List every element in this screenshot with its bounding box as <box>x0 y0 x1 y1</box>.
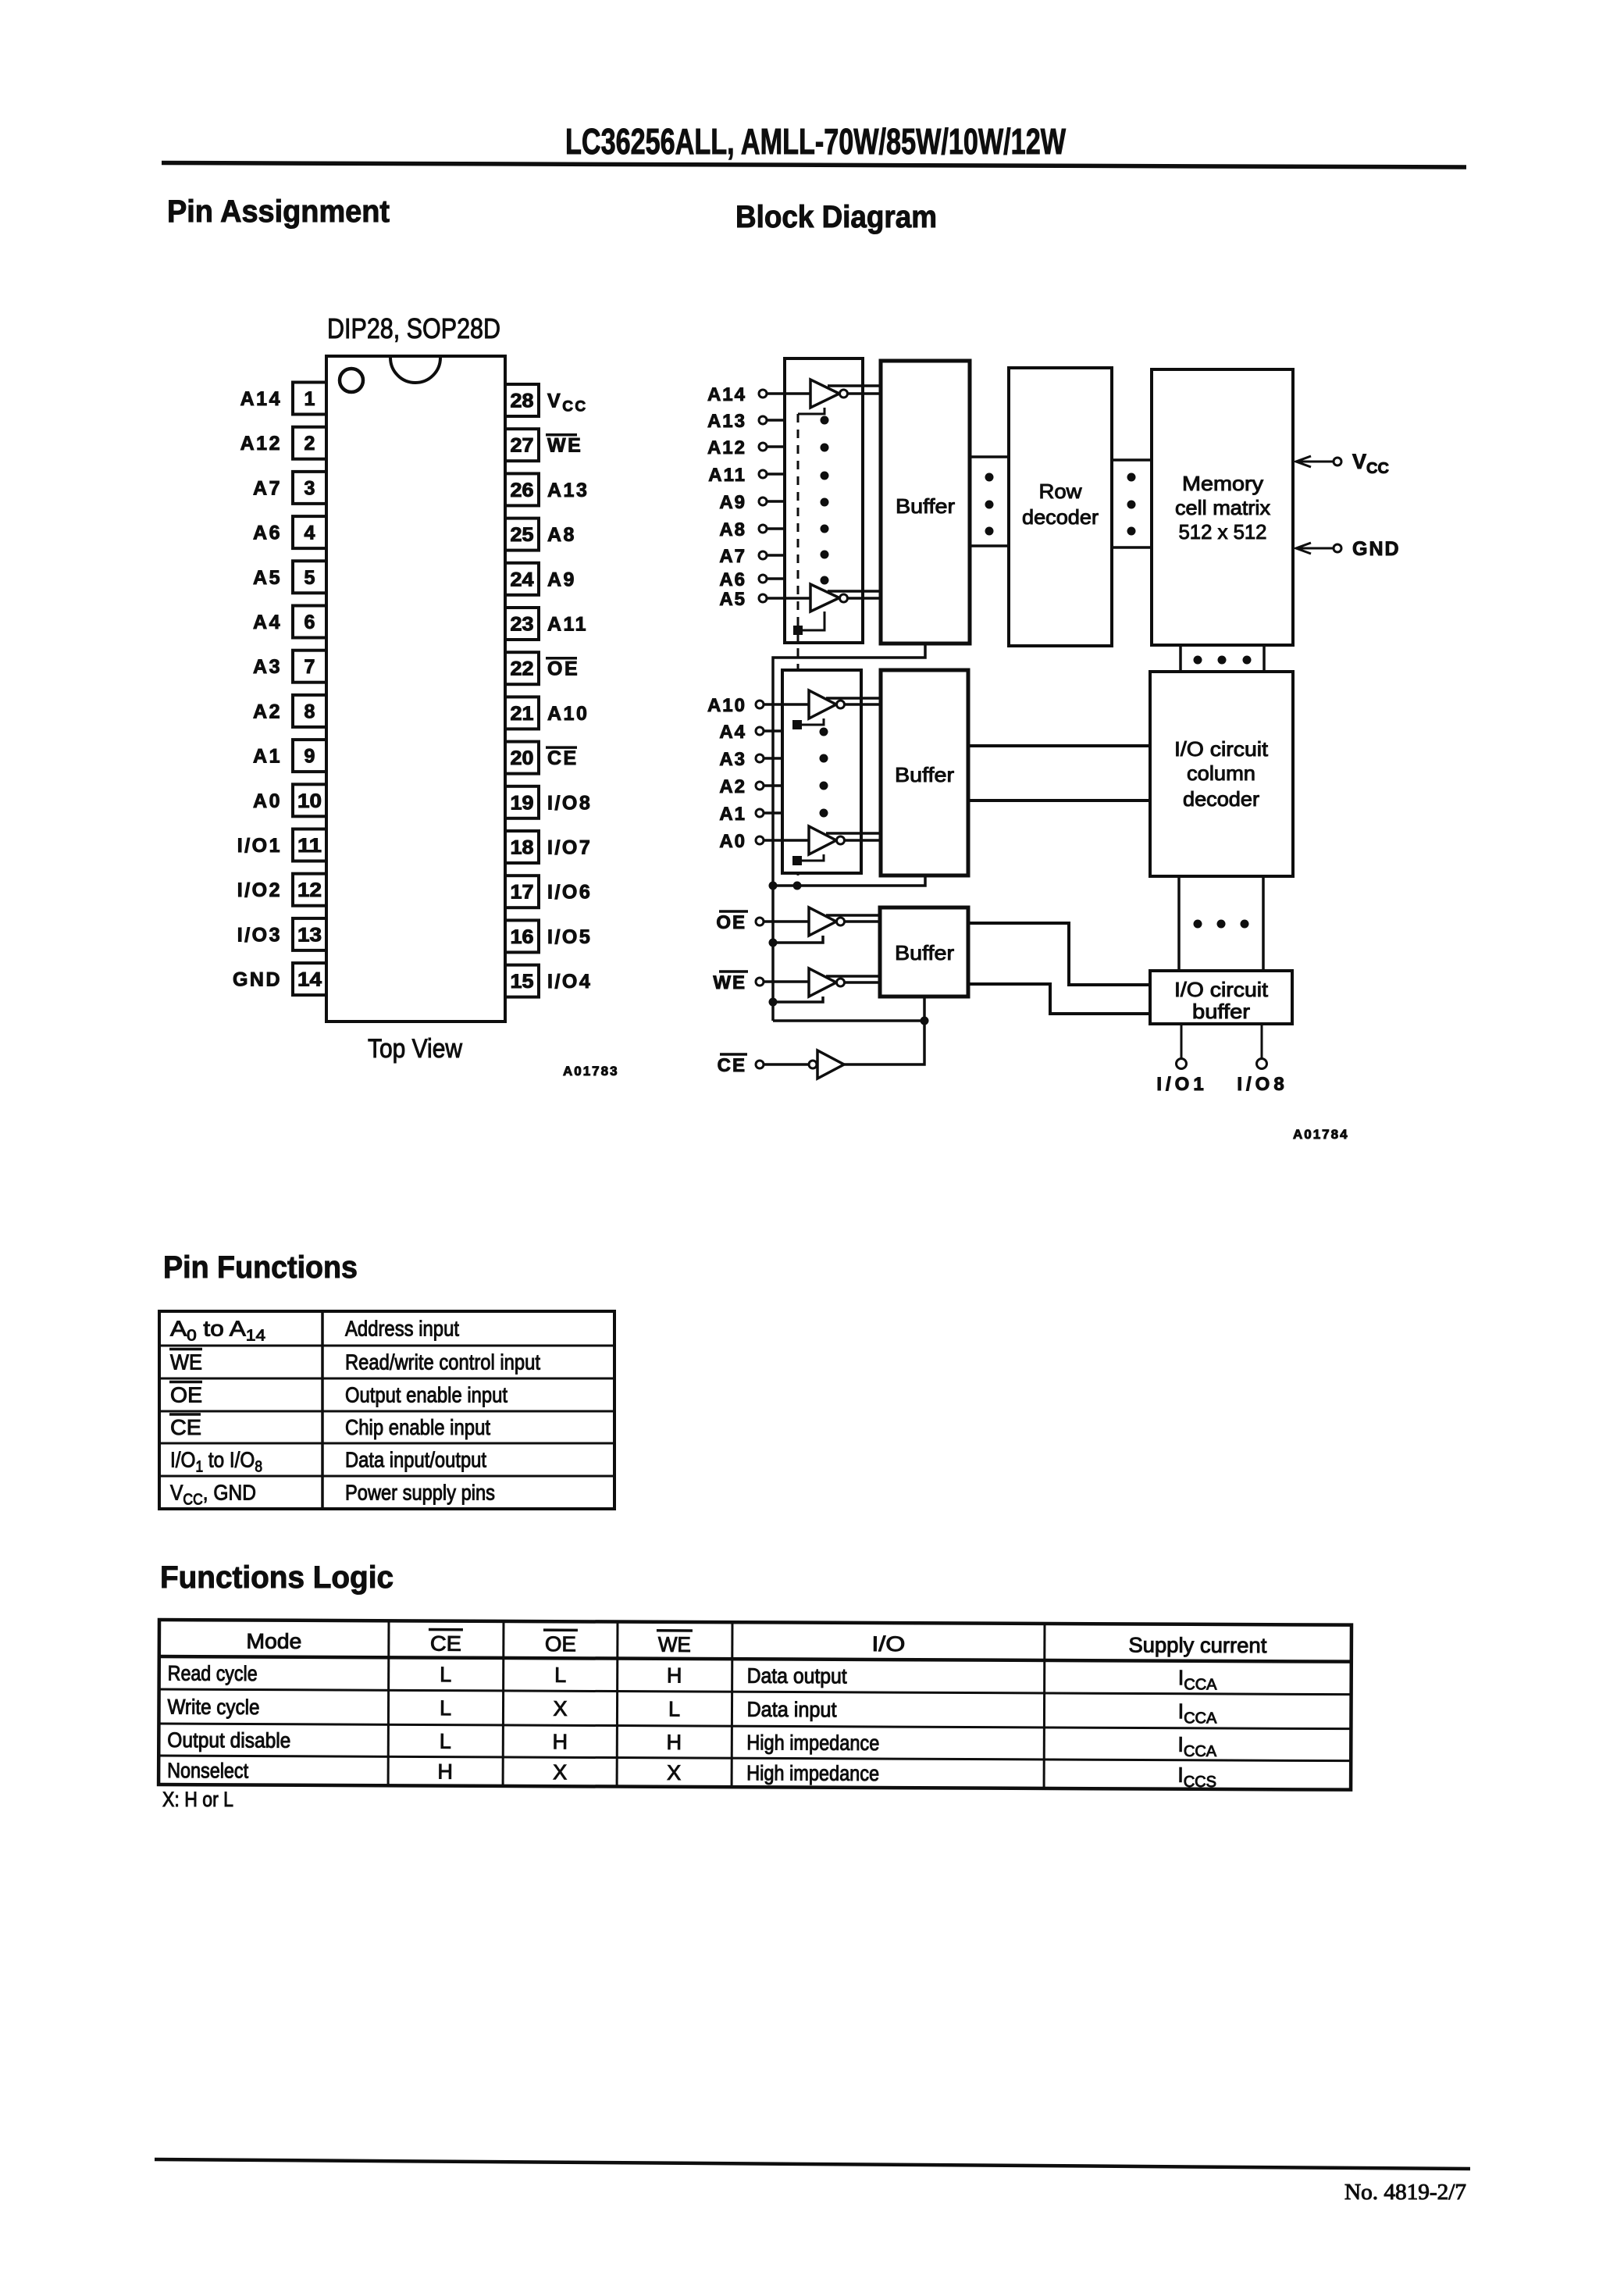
svg-text:11: 11 <box>297 835 322 857</box>
bus: row decoder to memory <box>1112 458 1152 462</box>
svg-text:Read cycle: Read cycle <box>168 1662 258 1686</box>
svg-text:H: H <box>667 1731 682 1754</box>
svg-text:A4: A4 <box>719 722 746 743</box>
wire: control buffer to I/O buffer (upper) <box>968 923 1150 985</box>
svg-text:Data input: Data input <box>746 1698 837 1722</box>
wire <box>764 729 782 733</box>
svg-text:3: 3 <box>304 477 315 499</box>
pin 28 box <box>505 384 539 416</box>
pin 14 box <box>293 963 326 995</box>
footer rule <box>155 2159 1470 2169</box>
pin 11 box <box>293 829 326 861</box>
svg-text:CE: CE <box>547 747 579 769</box>
svg-text:High impedance: High impedance <box>746 1731 879 1755</box>
pin 21 box <box>505 697 539 729</box>
pin 2 box <box>293 427 326 459</box>
pin 17 box <box>505 875 539 907</box>
pin 25 box <box>505 519 539 551</box>
buffer U3 (control) <box>880 907 968 997</box>
svg-text:I/O7: I/O7 <box>547 837 592 859</box>
wire: common control line <box>773 1019 924 1022</box>
svg-text:WE: WE <box>658 1633 691 1656</box>
svg-text:A5: A5 <box>253 567 282 589</box>
svg-text:L: L <box>440 1696 451 1720</box>
pin 20 box <box>505 742 539 774</box>
svg-text:Data input/output: Data input/output <box>345 1448 486 1472</box>
svg-text:I/O6: I/O6 <box>547 882 592 904</box>
svg-text:I/O8: I/O8 <box>1237 1074 1287 1095</box>
svg-text:X: H or L: X: H or L <box>162 1788 233 1811</box>
svg-text:22: 22 <box>511 658 534 680</box>
svg-text:Mode: Mode <box>246 1629 301 1653</box>
svg-text:A9: A9 <box>547 569 576 590</box>
svg-text:Functions Logic: Functions Logic <box>160 1560 394 1595</box>
svg-text:20: 20 <box>511 747 534 769</box>
svg-text:Buffer: Buffer <box>896 494 955 518</box>
svg-text:CE: CE <box>718 1055 746 1076</box>
svg-text:A01784: A01784 <box>1293 1127 1349 1142</box>
svg-text:A12: A12 <box>240 433 282 455</box>
svg-text:buffer: buffer <box>1192 1000 1250 1023</box>
wire <box>764 757 782 760</box>
inverter (WE) <box>809 968 836 997</box>
pin 1 box <box>293 383 326 415</box>
svg-text:X: X <box>553 1760 567 1784</box>
svg-text:A0 to A14: A0 to A14 <box>170 1317 265 1345</box>
pin 7 box <box>293 651 326 683</box>
junction <box>921 1017 929 1025</box>
svg-text:Power supply pins: Power supply pins <box>345 1481 495 1505</box>
svg-text:decoder: decoder <box>1022 505 1099 529</box>
svg-text:Row: Row <box>1039 480 1082 503</box>
buffer U2 (column address) <box>881 670 968 875</box>
junction <box>793 882 802 890</box>
wire pair to buffer (A5) <box>828 590 881 593</box>
pin 10 box <box>293 784 326 816</box>
svg-text:Block Diagram: Block Diagram <box>735 200 937 234</box>
svg-text:I/O2: I/O2 <box>237 879 282 901</box>
pin 3 box <box>293 472 326 504</box>
svg-text:I/O: I/O <box>871 1632 905 1656</box>
svg-text:26: 26 <box>511 480 534 501</box>
svg-text:Chip enable input: Chip enable input <box>345 1415 490 1439</box>
wires: buffer to column decoder <box>968 744 1150 747</box>
svg-text:A14: A14 <box>707 384 746 405</box>
wire <box>767 554 785 557</box>
svg-text:7: 7 <box>304 656 315 678</box>
pin 19 box <box>505 786 539 818</box>
I/O1 terminal <box>1181 1024 1183 1059</box>
svg-text:A10: A10 <box>547 703 589 725</box>
svg-text:ICCA: ICCA <box>1178 1699 1218 1727</box>
svg-text:A1: A1 <box>719 804 746 825</box>
svg-text:28: 28 <box>511 390 534 412</box>
svg-text:ICCS: ICCS <box>1177 1763 1216 1791</box>
wire <box>767 445 785 448</box>
inverter (OE) <box>809 907 836 936</box>
svg-text:A4: A4 <box>253 612 282 633</box>
memory cell matrix <box>1152 369 1293 645</box>
wire pair to buffer (A14) <box>828 384 881 387</box>
repetition dots <box>820 728 828 736</box>
pin 5 box <box>293 561 326 593</box>
svg-text:L: L <box>668 1697 680 1720</box>
svg-text:Output disable: Output disable <box>167 1728 290 1753</box>
junction <box>793 626 803 635</box>
wire <box>767 597 810 600</box>
svg-text:A13: A13 <box>547 480 589 501</box>
I/O circuit column decoder <box>1150 672 1293 876</box>
inverter (top of group 2) <box>809 690 836 718</box>
pin 26 box <box>505 473 539 505</box>
wire <box>764 839 809 842</box>
svg-text:Buffer: Buffer <box>895 941 954 965</box>
wire: OE branch to common line <box>773 936 823 943</box>
svg-text:Top View: Top View <box>368 1034 462 1064</box>
svg-text:Data output: Data output <box>747 1664 848 1688</box>
svg-text:GND: GND <box>1352 538 1401 560</box>
wire <box>764 784 782 787</box>
svg-text:L: L <box>440 1730 451 1753</box>
wire: WE branch to common line <box>773 997 823 1002</box>
svg-text:I/O1: I/O1 <box>237 835 282 857</box>
wire <box>764 980 809 983</box>
svg-text:A12: A12 <box>707 437 746 458</box>
I/O8 terminal <box>1261 1024 1263 1059</box>
svg-text:25: 25 <box>511 524 534 546</box>
svg-text:No. 4819-2/7: No. 4819-2/7 <box>1344 2180 1466 2205</box>
svg-text:8: 8 <box>304 701 315 722</box>
junction <box>769 939 778 947</box>
svg-text:23: 23 <box>511 614 534 636</box>
svg-text:I/O4: I/O4 <box>547 971 592 993</box>
svg-text:Buffer: Buffer <box>895 763 954 786</box>
svg-text:A01783: A01783 <box>563 1064 619 1079</box>
svg-text:A13: A13 <box>707 411 746 432</box>
svg-text:15: 15 <box>511 971 534 993</box>
svg-text:X: X <box>553 1697 567 1720</box>
pin 1 index dot <box>340 369 363 392</box>
svg-text:L: L <box>440 1663 451 1686</box>
svg-text:I/O8: I/O8 <box>547 792 592 814</box>
svg-text:VCC: VCC <box>1352 450 1389 477</box>
svg-text:GND: GND <box>233 969 282 991</box>
inverter (CE) with input bubble <box>809 1061 817 1068</box>
bus: memory to column decoder <box>1179 645 1182 670</box>
dashed repetition line <box>797 414 800 886</box>
svg-text:2: 2 <box>304 433 315 455</box>
svg-text:A5: A5 <box>719 589 746 610</box>
pin 24 box <box>505 563 539 595</box>
wire pair to buffer (OE) <box>826 914 880 917</box>
svg-text:A2: A2 <box>719 776 746 797</box>
wire <box>767 527 785 530</box>
svg-text:Output enable input: Output enable input <box>345 1383 507 1407</box>
svg-text:X: X <box>667 1761 681 1785</box>
svg-text:5: 5 <box>304 567 315 589</box>
svg-text:A1: A1 <box>253 746 282 768</box>
overline for pin 27 label <box>546 433 577 437</box>
wire: control buffer to I/O buffer (lower) <box>968 984 1150 1014</box>
svg-text:Address input: Address input <box>345 1317 459 1341</box>
svg-text:High impedance: High impedance <box>746 1761 879 1785</box>
row decoder <box>1009 368 1112 646</box>
svg-text:OE: OE <box>547 658 579 680</box>
junction <box>769 882 778 890</box>
pin 6 box <box>293 606 326 638</box>
svg-text:column: column <box>1187 761 1255 785</box>
svg-text:CE: CE <box>430 1632 461 1656</box>
inverter (bottom of group 2) <box>809 826 836 854</box>
svg-text:16: 16 <box>511 926 534 948</box>
svg-text:I/O3: I/O3 <box>237 924 282 946</box>
wire <box>764 1063 809 1066</box>
svg-text:A7: A7 <box>253 477 282 499</box>
wire: buffer1 bottom feedback <box>773 644 925 1021</box>
svg-text:VCC: VCC <box>547 390 588 415</box>
svg-text:I/O circuit: I/O circuit <box>1174 737 1269 761</box>
overline for pin 20 label <box>546 746 577 749</box>
I/O circuit buffer <box>1150 971 1292 1024</box>
wire pair to buffer (A0) <box>826 832 881 835</box>
wire: input branch <box>797 854 824 861</box>
svg-text:OE: OE <box>170 1383 202 1407</box>
svg-text:12: 12 <box>297 879 322 901</box>
svg-text:A3: A3 <box>719 749 746 770</box>
svg-text:I/O5: I/O5 <box>547 926 592 948</box>
pin 16 box <box>505 920 539 952</box>
svg-text:ICCA: ICCA <box>1177 1733 1217 1760</box>
svg-text:OE: OE <box>716 912 746 933</box>
wire <box>767 500 785 503</box>
wire: input branch <box>797 718 824 725</box>
svg-text:A3: A3 <box>253 656 282 678</box>
svg-text:WE: WE <box>547 435 582 457</box>
pin 27 box <box>505 429 539 461</box>
GND supply terminal <box>1295 547 1334 550</box>
svg-text:WE: WE <box>170 1350 202 1375</box>
svg-text:A8: A8 <box>719 519 746 540</box>
overline for pin 22 label <box>546 657 577 660</box>
svg-text:10: 10 <box>297 790 322 812</box>
svg-text:21: 21 <box>511 703 534 725</box>
svg-text:I/O circuit: I/O circuit <box>1174 978 1269 1001</box>
svg-text:Memory: Memory <box>1182 472 1263 495</box>
svg-text:Nonselect: Nonselect <box>167 1759 249 1782</box>
pin functions table frame <box>159 1311 614 1509</box>
svg-text:A10: A10 <box>707 695 746 716</box>
functions logic table frame <box>158 1620 1352 1790</box>
svg-text:6: 6 <box>304 612 315 633</box>
svg-text:ICCA: ICCA <box>1178 1666 1218 1693</box>
svg-text:A0: A0 <box>719 831 746 852</box>
svg-text:Supply current: Supply current <box>1128 1633 1267 1657</box>
svg-text:14: 14 <box>297 969 322 991</box>
svg-text:A11: A11 <box>547 614 588 636</box>
wire <box>764 703 809 706</box>
svg-text:I/O1 to I/O8: I/O1 to I/O8 <box>170 1448 262 1476</box>
svg-text:9: 9 <box>304 746 315 768</box>
svg-text:Write cycle: Write cycle <box>167 1695 259 1720</box>
svg-text:WE: WE <box>713 972 746 993</box>
svg-text:18: 18 <box>511 837 534 859</box>
inverter (top of group 1) <box>810 380 839 408</box>
svg-text:4: 4 <box>304 522 315 544</box>
svg-text:decoder: decoder <box>1183 787 1259 811</box>
pin 18 box <box>505 831 539 863</box>
wire <box>767 419 785 422</box>
VCC supply terminal <box>1295 461 1334 463</box>
svg-text:H: H <box>667 1663 682 1687</box>
svg-text:L: L <box>554 1663 566 1687</box>
svg-text:CE: CE <box>170 1415 201 1439</box>
svg-text:17: 17 <box>511 882 534 904</box>
svg-text:OE: OE <box>545 1632 576 1656</box>
pin 12 box <box>293 874 326 906</box>
pin 22 box <box>505 652 539 684</box>
svg-text:cell matrix: cell matrix <box>1175 496 1270 519</box>
pin 23 box <box>505 608 539 640</box>
wire: inverter input branch to dashed line <box>798 408 824 414</box>
pin 8 box <box>293 695 326 727</box>
bus: column decoder to I/O buffer <box>1177 876 1181 971</box>
svg-text:A6: A6 <box>719 569 746 590</box>
wire pair to buffer (A10) <box>826 697 881 700</box>
svg-text:H: H <box>553 1730 568 1753</box>
svg-text:A14: A14 <box>240 388 282 410</box>
svg-text:A11: A11 <box>708 465 746 486</box>
pin 13 box <box>293 918 326 950</box>
svg-text:VCC, GND: VCC, GND <box>170 1481 256 1509</box>
svg-text:I/O1: I/O1 <box>1156 1074 1207 1095</box>
index notch <box>390 358 440 383</box>
IC package body (top view) <box>326 356 505 1022</box>
svg-text:LC36256ALL, AMLL-70W/85W/10W/1: LC36256ALL, AMLL-70W/85W/10W/12W <box>565 121 1066 162</box>
svg-text:A0: A0 <box>253 790 282 812</box>
inverter group box 2 (A0-A4, A10) <box>782 670 861 873</box>
svg-text:512 x 512: 512 x 512 <box>1179 520 1267 544</box>
wire <box>764 920 809 923</box>
svg-text:19: 19 <box>511 792 534 814</box>
svg-text:1: 1 <box>304 388 315 410</box>
svg-text:DIP28, SOP28D: DIP28, SOP28D <box>327 312 500 344</box>
wire: CE to control node <box>843 997 924 1064</box>
svg-text:27: 27 <box>511 435 534 457</box>
svg-text:A2: A2 <box>253 701 282 722</box>
inverter group box 1 (A5-A14) <box>785 358 863 643</box>
svg-text:13: 13 <box>297 924 322 946</box>
wire <box>767 392 810 395</box>
svg-text:A6: A6 <box>253 522 282 544</box>
svg-text:H: H <box>437 1760 453 1784</box>
wire <box>767 577 785 580</box>
repetition dots <box>821 416 829 425</box>
wire: buffer2 bottom feedback <box>773 875 925 886</box>
wire pair to buffer (WE) <box>826 975 880 978</box>
wire <box>764 811 782 815</box>
buffer U1 (row address) <box>881 361 970 644</box>
svg-text:A7: A7 <box>719 546 746 567</box>
inverter (bottom of group 1) <box>810 584 839 612</box>
bus: buffer to row decoder <box>970 455 1009 458</box>
pin 15 box <box>505 965 539 997</box>
svg-text:Pin Assignment: Pin Assignment <box>167 194 390 229</box>
svg-text:A9: A9 <box>719 492 746 513</box>
header rule <box>162 163 1466 168</box>
svg-text:A8: A8 <box>547 524 576 546</box>
svg-text:Read/write control input: Read/write control input <box>345 1350 540 1375</box>
pin 9 box <box>293 740 326 772</box>
svg-text:Pin Functions: Pin Functions <box>163 1250 358 1285</box>
wire: inverter input branch to dashed line <box>798 612 824 630</box>
pin 4 box <box>293 516 326 548</box>
svg-text:24: 24 <box>511 569 534 590</box>
wire <box>767 472 785 476</box>
junction <box>769 998 778 1007</box>
